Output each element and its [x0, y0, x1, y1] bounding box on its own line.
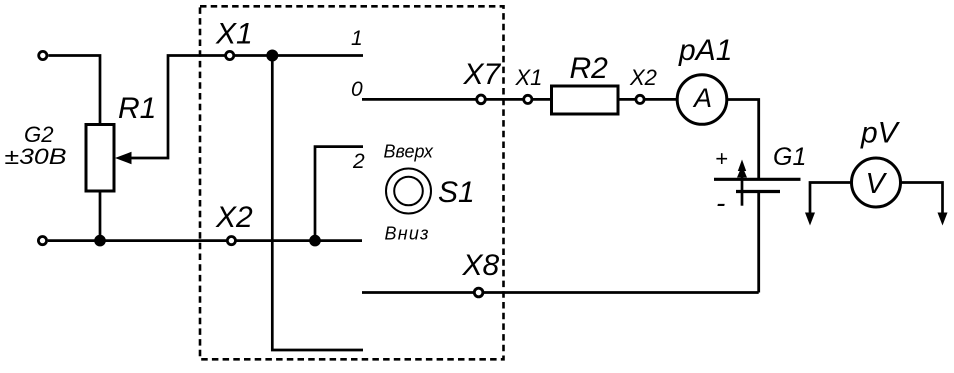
resistor R1 — [86, 125, 114, 192]
junction — [309, 235, 321, 247]
wire — [757, 192, 760, 293]
wire — [130, 56, 363, 159]
junction — [266, 50, 278, 62]
svg-text:G1: G1 — [773, 143, 806, 171]
adjustment arrow through G1 — [741, 170, 744, 206]
svg-text:X1: X1 — [215, 17, 253, 50]
dashed enclosure box — [200, 6, 504, 359]
wire — [727, 100, 759, 180]
terminal bottom-left — [38, 237, 46, 245]
wire — [272, 56, 363, 351]
svg-text:+: + — [715, 146, 728, 171]
terminal X2 — [227, 237, 235, 245]
resistor R2 — [552, 86, 619, 114]
svg-text:S1: S1 — [438, 176, 475, 209]
svg-text:1: 1 — [351, 27, 363, 50]
wire — [99, 191, 102, 241]
terminal X2 small — [636, 95, 644, 103]
svg-text:X1: X1 — [515, 65, 543, 90]
battery G1 long plate — [714, 178, 801, 181]
wiper arrow of R1 — [115, 152, 132, 164]
svg-text:V: V — [866, 168, 888, 200]
voltmeter pV — [852, 158, 901, 207]
branch 2 — [315, 147, 363, 241]
svg-text:pV: pV — [860, 117, 901, 150]
wire — [48, 56, 100, 126]
junction — [94, 235, 106, 247]
svg-text:X8: X8 — [462, 249, 500, 282]
svg-text:Вниз: Вниз — [385, 224, 429, 244]
svg-text:X7: X7 — [463, 58, 502, 91]
terminal top-left — [39, 51, 47, 59]
terminal X7 — [477, 95, 486, 104]
svg-text:pA1: pA1 — [678, 34, 732, 67]
svg-text:A: A — [692, 83, 712, 113]
svg-text:-: - — [716, 188, 725, 219]
svg-text:R2: R2 — [570, 52, 609, 85]
voltmeter left lead — [810, 183, 852, 214]
svg-text:±30В: ±30В — [5, 144, 67, 169]
wire contact 0 — [362, 98, 677, 101]
terminal X1 — [226, 51, 234, 59]
terminal X1 small — [524, 95, 532, 103]
ammeter pA1 — [677, 75, 727, 125]
terminal X8 — [474, 288, 483, 297]
wire — [48, 239, 362, 242]
svg-text:Вверх: Вверх — [384, 142, 434, 162]
svg-text:2: 2 — [352, 150, 365, 173]
voltmeter right lead — [901, 183, 943, 214]
switch S1 inner circle — [394, 177, 423, 206]
svg-text:0: 0 — [351, 78, 363, 101]
svg-text:X2: X2 — [215, 201, 253, 234]
svg-text:X2: X2 — [629, 65, 657, 90]
battery G1 short plate — [736, 190, 780, 193]
switch S1 outer circle — [386, 169, 431, 214]
svg-text:R1: R1 — [118, 92, 156, 125]
wire bottom — [362, 291, 759, 294]
